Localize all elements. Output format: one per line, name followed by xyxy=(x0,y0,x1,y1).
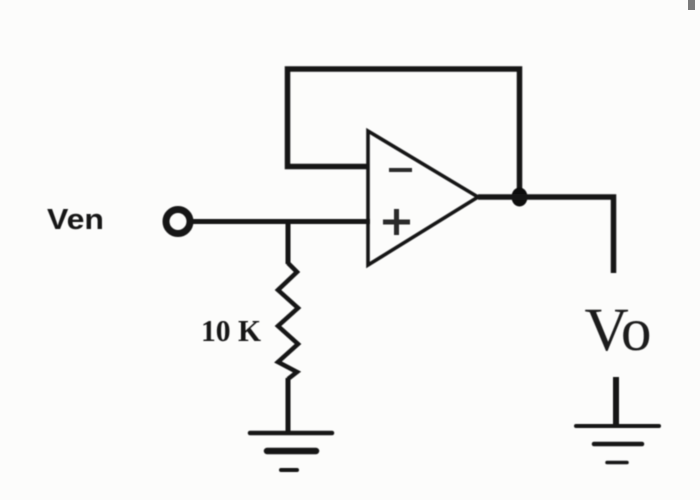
wire feedback loop output to inverting input xyxy=(288,69,520,193)
wire output op-amp to Vo xyxy=(478,197,614,273)
junction output node xyxy=(512,188,528,207)
wire Ven terminal to op-amp non-inverting input xyxy=(193,219,370,224)
resistor R1 10K xyxy=(278,263,298,379)
net label Vo xyxy=(585,297,652,364)
input terminal Ven xyxy=(166,210,190,234)
wire junction to resistor R1 top xyxy=(286,222,291,265)
svg-text:Vo: Vo xyxy=(585,297,652,364)
svg-text:Ven: Ven xyxy=(47,204,104,236)
svg-text:10 K: 10 K xyxy=(201,313,261,348)
op-amp U1 xyxy=(368,131,478,265)
ground (input side) xyxy=(250,433,332,470)
net label Ven xyxy=(47,204,104,236)
wire resistor R1 bottom to ground xyxy=(286,378,291,433)
value label 10 K xyxy=(201,313,261,348)
ground (output side) xyxy=(576,426,659,463)
wire Vo to ground xyxy=(613,377,619,426)
